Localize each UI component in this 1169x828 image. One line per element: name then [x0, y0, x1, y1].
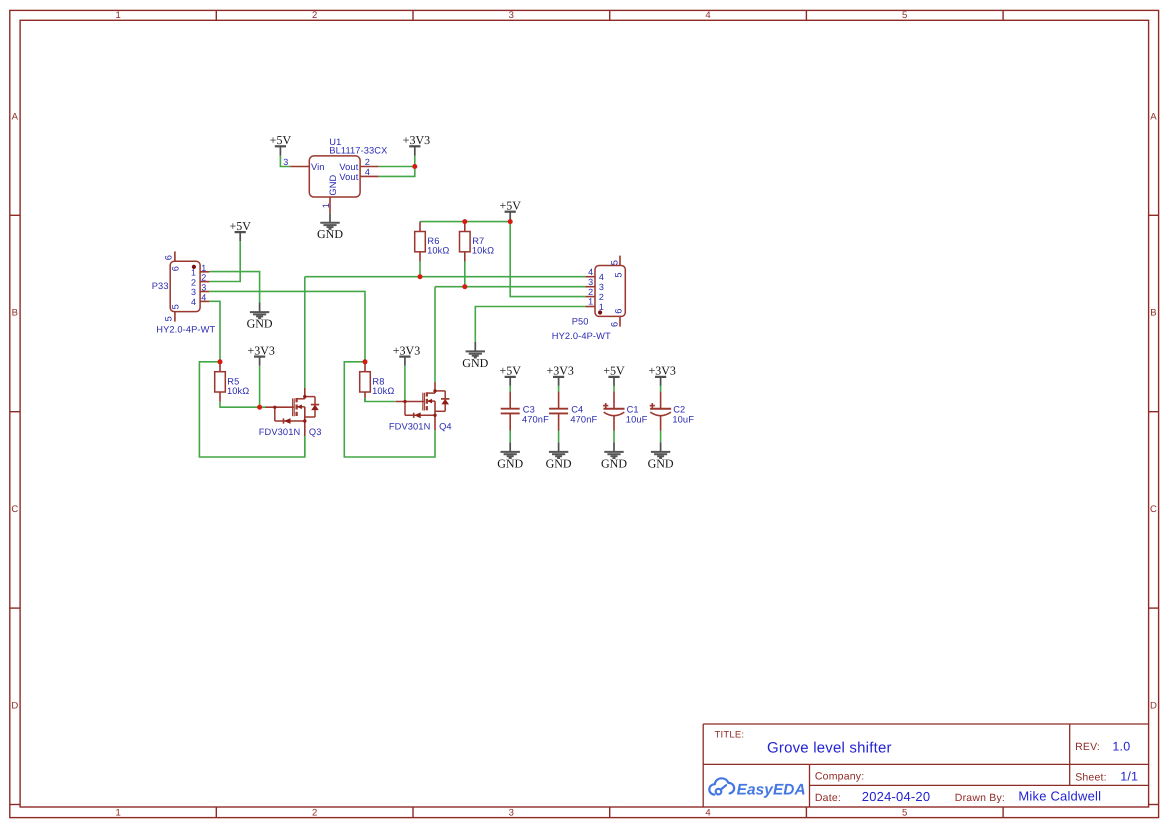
wire +5V to P33 pin2: [209, 241, 240, 281]
svg-text:3: 3: [283, 157, 288, 167]
svg-text:2: 2: [191, 277, 196, 287]
wire P33 pin3 to R8: [209, 291, 365, 361]
svg-text:2: 2: [599, 292, 604, 302]
junction gate net Q3: [257, 405, 262, 410]
P50 pins 1-4: [585, 276, 595, 278]
junction U1 output: [412, 164, 417, 169]
svg-text:3: 3: [191, 287, 196, 297]
svg-text:+3V3: +3V3: [546, 364, 573, 378]
svg-text:EasyEDA: EasyEDA: [737, 781, 806, 798]
svg-text:2: 2: [201, 273, 206, 283]
svg-text:10kΩ: 10kΩ: [227, 386, 249, 396]
wire U1 Vout pin2 to +3V3: [379, 166, 415, 168]
svg-text:+3V3: +3V3: [403, 133, 430, 147]
svg-text:5: 5: [609, 260, 619, 265]
svg-text:+3V3: +3V3: [247, 343, 274, 357]
wire R8 loop to Q4 source: [344, 362, 435, 457]
svg-text:10kΩ: 10kΩ: [372, 386, 394, 396]
connector P33 HY2.0-4P-WT: [170, 261, 200, 311]
svg-text:GND: GND: [328, 174, 338, 195]
svg-text:6: 6: [171, 266, 181, 271]
svg-text:Date:: Date:: [815, 792, 841, 804]
resistor R5: [219, 362, 221, 372]
svg-text:HY2.0-4P-WT: HY2.0-4P-WT: [552, 331, 611, 341]
ground (C2): [660, 442, 662, 452]
wire +3V3 down to gate net: [259, 366, 261, 407]
svg-text:1: 1: [588, 297, 593, 307]
ground (C3): [509, 442, 511, 452]
svg-text:6: 6: [164, 255, 174, 260]
svg-text:Q4: Q4: [439, 421, 452, 431]
svg-text:GND: GND: [546, 456, 572, 470]
wire P50 pin1 to GND: [475, 307, 585, 342]
svg-text:1/1: 1/1: [1120, 769, 1138, 783]
svg-text:6: 6: [613, 309, 623, 314]
wire C3 to GND: [509, 431, 511, 443]
svg-text:FDV301N: FDV301N: [389, 421, 431, 431]
svg-text:4: 4: [705, 807, 710, 818]
svg-text:470nF: 470nF: [522, 414, 549, 424]
svg-text:2: 2: [312, 10, 317, 21]
svg-text:1: 1: [116, 10, 121, 21]
wire Q3 drain up to HV net: [304, 277, 306, 389]
svg-text:10kΩ: 10kΩ: [472, 246, 494, 256]
wire P33 pin1 to GND: [209, 272, 259, 303]
svg-text:+5V: +5V: [603, 364, 625, 378]
svg-text:3: 3: [509, 10, 514, 21]
wire C4 to GND: [558, 431, 560, 443]
ground (P33): [259, 303, 261, 313]
U1 pin 3 Vin: [290, 166, 309, 168]
svg-text:4: 4: [191, 297, 196, 307]
wire Q4 drain up to HV net: [434, 287, 436, 383]
svg-text:1.0: 1.0: [1112, 739, 1130, 753]
svg-text:GND: GND: [601, 456, 627, 470]
ground (C1): [613, 442, 615, 452]
svg-text:C4: C4: [571, 404, 583, 414]
svg-text:Drawn By:: Drawn By:: [955, 792, 1005, 804]
svg-text:4: 4: [201, 292, 206, 302]
wire +5V to C1: [613, 386, 615, 392]
svg-text:1: 1: [599, 302, 604, 312]
wire R6 bottom: [419, 261, 421, 276]
svg-text:GND: GND: [317, 227, 343, 241]
svg-text:10uF: 10uF: [626, 414, 648, 424]
wire +5V rail over R6 R7: [420, 221, 510, 223]
svg-text:A: A: [1150, 111, 1157, 122]
svg-text:4: 4: [599, 272, 604, 282]
svg-text:5: 5: [171, 304, 181, 309]
svg-text:GND: GND: [462, 356, 488, 370]
svg-text:GND: GND: [497, 456, 523, 470]
svg-text:10uF: 10uF: [672, 414, 694, 424]
svg-text:1: 1: [191, 268, 196, 278]
svg-text:+3V3: +3V3: [648, 364, 675, 378]
svg-text:B: B: [1150, 308, 1156, 319]
svg-text:REV:: REV:: [1075, 741, 1100, 753]
EasyEDA logo: [709, 778, 734, 794]
wire +3V3 to C2: [660, 386, 662, 392]
connector P50 HY2.0-4P-WT: [595, 266, 625, 317]
P33 pins 1-4: [200, 271, 209, 273]
junction R7 top: [462, 219, 467, 224]
P50 pin1 mark dot: [598, 310, 602, 314]
svg-text:GND: GND: [247, 317, 273, 331]
svg-text:+3V3: +3V3: [393, 343, 420, 357]
svg-text:3: 3: [509, 807, 514, 818]
junction R5 top: [218, 359, 223, 364]
ground (U1): [329, 213, 331, 223]
svg-text:470nF: 470nF: [570, 414, 597, 424]
svg-text:5: 5: [902, 807, 907, 818]
svg-text:+5V: +5V: [229, 219, 251, 233]
transistor Q4 FDV301N: [396, 382, 450, 430]
svg-text:+5V: +5V: [499, 364, 521, 378]
svg-text:10kΩ: 10kΩ: [427, 246, 449, 256]
wire +3V3 to C4: [558, 386, 560, 392]
resistor R8: [364, 362, 366, 372]
svg-text:5: 5: [164, 316, 174, 321]
svg-text:A: A: [12, 111, 19, 122]
svg-text:1: 1: [201, 263, 206, 273]
svg-text:5: 5: [613, 272, 623, 277]
wire C2 to GND: [660, 431, 662, 443]
wire C1 to GND: [613, 431, 615, 443]
svg-text:4: 4: [588, 267, 593, 277]
wire Q3 source down: [304, 435, 306, 457]
svg-text:+5V: +5V: [270, 133, 292, 147]
capacitor C4 470nF: [558, 392, 560, 409]
svg-text:Company:: Company:: [815, 771, 864, 783]
U1 pin 1 GND: [329, 197, 331, 213]
P33 pin 6 (top): [174, 251, 176, 261]
resistor R6: [419, 222, 421, 232]
svg-text:Vout: Vout: [339, 172, 358, 182]
junction +5V rail: [508, 219, 513, 224]
svg-text:2: 2: [312, 807, 317, 818]
svg-text:B: B: [12, 308, 18, 319]
ground (C4): [558, 442, 560, 452]
svg-text:FDV301N: FDV301N: [259, 427, 301, 437]
U1 pin 2 Vout: [360, 166, 379, 168]
svg-text:TITLE:: TITLE:: [715, 730, 745, 741]
op... regulator U1 BL1117-33CX: [309, 156, 360, 197]
U1 pin 4 Vout: [360, 175, 379, 177]
P50 pin 6 (bottom): [619, 316, 621, 326]
wire +3V3 stem: [414, 156, 416, 167]
P33 pin 5 (bottom): [174, 312, 176, 322]
svg-text:Grove level shifter: Grove level shifter: [767, 739, 892, 756]
wire R5 loop to Q3 source: [199, 362, 304, 457]
resistor R7: [464, 222, 466, 232]
svg-text:1: 1: [116, 807, 121, 818]
svg-text:Vout: Vout: [339, 162, 358, 172]
wire HV net A (P50 pin4): [305, 276, 586, 278]
wire +3V3 down to Q4 gate net: [404, 366, 406, 402]
svg-text:GND: GND: [648, 456, 674, 470]
svg-text:D: D: [11, 701, 18, 712]
svg-text:D: D: [1150, 701, 1157, 712]
svg-text:C: C: [1150, 504, 1157, 515]
svg-text:+5V: +5V: [499, 198, 521, 212]
wire U1 Vout pin4 to +3V3: [379, 167, 415, 177]
svg-text:6: 6: [609, 322, 619, 327]
svg-text:C3: C3: [523, 404, 535, 414]
svg-text:2024-04-20: 2024-04-20: [862, 789, 931, 804]
svg-text:P33: P33: [152, 281, 169, 291]
ground (P50): [474, 342, 476, 352]
junction R6 bottom: [418, 274, 423, 279]
svg-text:P50: P50: [572, 317, 589, 327]
title block: [703, 724, 1148, 807]
svg-text:Q3: Q3: [309, 427, 322, 437]
svg-text:Sheet:: Sheet:: [1075, 772, 1107, 784]
svg-text:1: 1: [321, 203, 331, 208]
svg-text:C1: C1: [627, 404, 639, 414]
svg-text:3: 3: [599, 282, 604, 292]
svg-text:3: 3: [588, 277, 593, 287]
wire P33 pin4 to R5: [209, 301, 220, 362]
svg-text:4: 4: [705, 10, 710, 21]
wire R5 bottom to Q3 gate: [220, 402, 266, 408]
svg-text:Mike Caldwell: Mike Caldwell: [1018, 789, 1101, 804]
capacitor C3 470nF: [509, 392, 511, 409]
wire R8 bottom to Q4 gate: [365, 398, 395, 402]
transistor Q3 FDV301N: [265, 388, 319, 436]
junction R8 top: [363, 359, 368, 364]
capacitor C2 10uF polarized: [660, 392, 662, 409]
svg-text:HY2.0-4P-WT: HY2.0-4P-WT: [156, 324, 215, 334]
P50 pin 5 (top): [619, 256, 621, 266]
wire +5V to C3: [509, 386, 511, 392]
svg-text:C2: C2: [673, 404, 685, 414]
svg-text:5: 5: [902, 10, 907, 21]
svg-text:4: 4: [365, 167, 370, 177]
svg-text:Vin: Vin: [311, 162, 325, 172]
svg-text:BL1117-33CX: BL1117-33CX: [329, 146, 387, 156]
capacitor C1 10uF polarized: [613, 392, 615, 409]
wire +5V down to P50 pin2: [510, 221, 585, 297]
svg-text:2: 2: [588, 287, 593, 297]
svg-text:2: 2: [365, 157, 370, 167]
P33 pin1 mark dot: [192, 265, 196, 269]
wire HV net B (P50 pin3): [435, 286, 585, 288]
svg-text:3: 3: [201, 283, 206, 293]
svg-text:C: C: [11, 504, 18, 515]
wire +5V to U1 Vin: [280, 156, 290, 167]
junction R7 bottom: [462, 284, 467, 289]
wire R7 bottom: [464, 261, 466, 286]
